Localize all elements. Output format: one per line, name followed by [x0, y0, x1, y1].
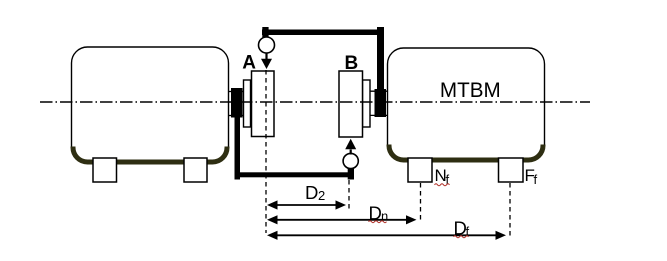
MTBM foot Nf	[408, 158, 432, 182]
bottom dial arrow	[350, 150, 352, 155]
MTBM foot Ff	[499, 158, 524, 182]
top bracket left nub	[262, 27, 268, 38]
dashed projection line Ff	[509, 183, 511, 238]
coupling face plate B	[339, 71, 363, 137]
svg-text:A: A	[242, 53, 256, 74]
svg-text:n: n	[381, 209, 388, 224]
svg-text:D: D	[305, 182, 318, 203]
left machine body	[72, 47, 229, 163]
bottom bracket bar	[235, 172, 354, 177]
bottom dial indicator	[343, 153, 358, 168]
coupling face plate A	[252, 71, 275, 137]
bottom bracket post	[235, 117, 241, 180]
red squiggle under Nf	[435, 184, 450, 186]
MTBM machine body	[388, 48, 545, 161]
dashed projection line A	[265, 70, 267, 233]
svg-text:MTBM: MTBM	[440, 78, 501, 102]
dimension D2	[274, 204, 339, 206]
dashed projection line B	[348, 180, 350, 209]
dashed projection line Nf	[420, 183, 422, 222]
left machine foot 2	[184, 158, 207, 182]
left machine foot 1	[93, 158, 117, 182]
dimension Df	[274, 234, 499, 236]
MTBM base shadow	[389, 145, 543, 161]
right shaft outline	[370, 90, 388, 92]
top bracket right post	[377, 27, 384, 90]
shaft centerline	[40, 101, 590, 103]
left coupling hub (black)	[231, 88, 243, 118]
svg-text:f: f	[534, 172, 538, 187]
svg-text:B: B	[345, 53, 359, 74]
bottom bracket right nub	[348, 168, 354, 180]
red squiggle under Dn	[369, 221, 387, 223]
left shaft outline	[229, 91, 244, 93]
dimension Dn	[274, 219, 410, 221]
left small flange	[244, 80, 251, 127]
right small flange	[363, 80, 371, 127]
right coupling hub (black)	[375, 89, 387, 117]
red squiggle under Df	[454, 236, 469, 238]
top dial arrow	[265, 53, 267, 60]
top dial indicator	[259, 37, 275, 53]
top bracket bar	[262, 30, 384, 36]
left machine base shadow	[73, 147, 227, 163]
svg-text:2: 2	[318, 188, 325, 203]
